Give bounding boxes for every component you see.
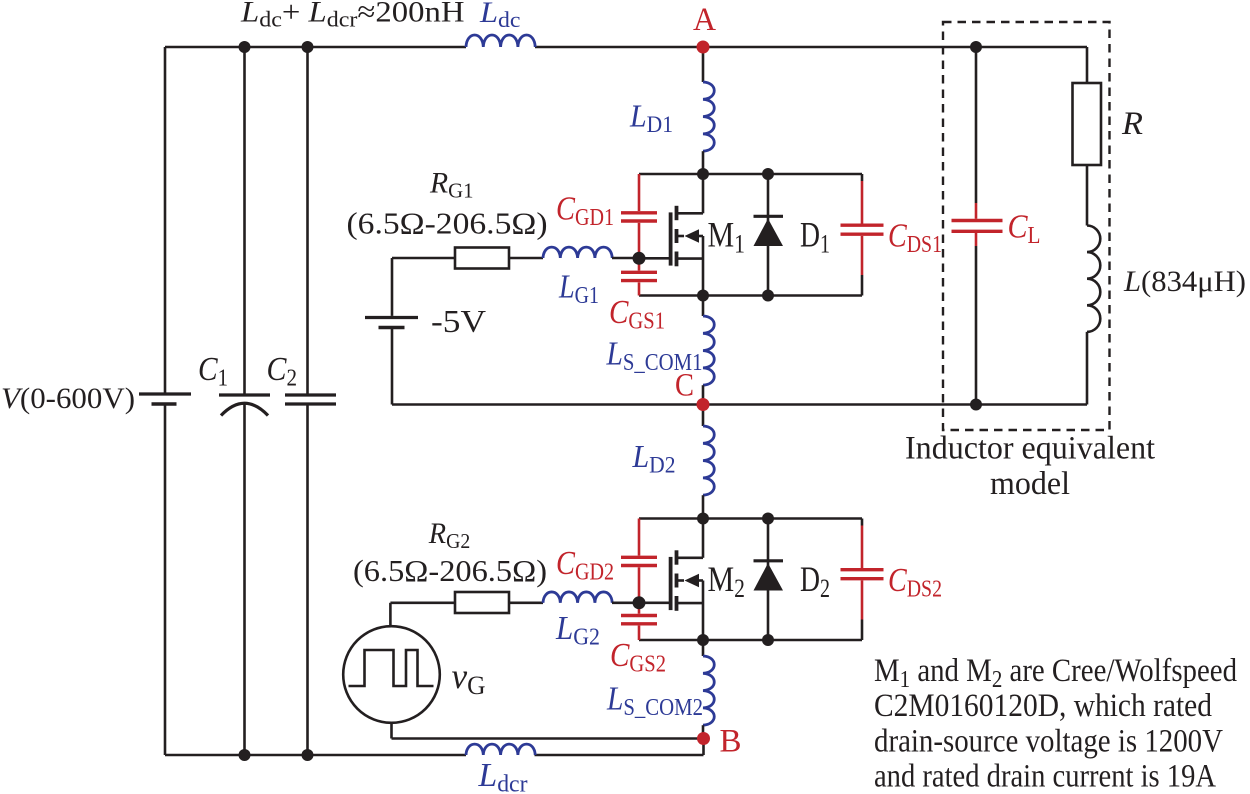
svg-text:C: C: [675, 368, 694, 404]
svg-text:M1 and M2 are Cree/Wolfspeed: M1 and M2 are Cree/Wolfspeed: [874, 653, 1237, 693]
wire C1 branch upper: [243, 47, 246, 395]
node C: [697, 398, 710, 411]
svg-text:M2: M2: [708, 559, 746, 603]
wire R_G1 to L_G1: [509, 257, 543, 260]
svg-text:C2M0160120D, which rated: C2M0160120D, which rated: [874, 688, 1212, 724]
svg-text:CGD1: CGD1: [556, 191, 614, 232]
svg-text:CDS1: CDS1: [888, 218, 942, 259]
capacitor C1 (polarized): [219, 395, 270, 416]
svg-text:CGD2: CGD2: [556, 545, 614, 586]
wire -5V loop to R_G1: [392, 257, 455, 260]
wire node A to L_D1: [702, 47, 705, 82]
wire riser from bottom rail to node B: [702, 739, 705, 756]
inductor L_G1: [543, 247, 612, 258]
battery -5V: [365, 318, 418, 328]
svg-text:RG2: RG2: [428, 517, 470, 553]
inductor L: [1087, 226, 1100, 332]
svg-text:LG1: LG1: [558, 269, 599, 310]
svg-text:C1: C1: [198, 351, 228, 392]
svg-text:model: model: [990, 466, 1070, 502]
wire top rail corner to R: [1086, 47, 1089, 83]
source v_G pulse waveform: [349, 650, 434, 686]
diode D1: [754, 174, 784, 296]
svg-text:LD2: LD2: [632, 438, 676, 478]
svg-text:(6.5Ω-206.5Ω): (6.5Ω-206.5Ω): [353, 553, 547, 588]
svg-text:vG: vG: [452, 656, 486, 700]
capacitor C_DS1 branch: [841, 174, 884, 296]
wire v_G branch down: [389, 603, 392, 626]
wire C1 branch lower: [243, 404, 246, 755]
wire M2 box bottom rail: [639, 639, 862, 642]
capacitor C_DS2 branch: [841, 519, 884, 641]
svg-text:drain-source voltage is 1200V: drain-source voltage is 1200V: [874, 723, 1223, 759]
wire L_G2 to gate node: [612, 601, 639, 604]
svg-text:Inductor equivalent: Inductor equivalent: [905, 431, 1155, 467]
wire C2 branch upper: [306, 47, 309, 395]
transistor M2: [639, 519, 703, 641]
wire M1 box top rail: [639, 173, 862, 176]
svg-text:CGS1: CGS1: [609, 294, 665, 335]
wire top rail right segment: [535, 46, 1087, 49]
svg-text:Ldc+ Ldcr≈200nH: Ldc+ Ldcr≈200nH: [240, 0, 465, 32]
wire R to L: [1086, 165, 1089, 226]
capacitor C_L branch: [952, 47, 1003, 405]
svg-text:CDS2: CDS2: [888, 562, 942, 603]
wire left branch below battery V: [164, 404, 167, 755]
svg-text:(6.5Ω-206.5Ω): (6.5Ω-206.5Ω): [347, 206, 548, 241]
source v_G circle: [343, 626, 440, 723]
wire L_D1 to M1 drain rail: [702, 151, 705, 174]
wire left branch above battery V: [164, 47, 167, 394]
inductor L_dcr: [466, 744, 535, 755]
battery V(0-600V): [139, 394, 191, 404]
diode D2: [754, 519, 784, 641]
wire top rail left segment: [165, 46, 466, 49]
node B: [697, 732, 710, 745]
resistor R_G1: [455, 248, 509, 269]
svg-text:C2: C2: [267, 351, 298, 392]
transistor M1: [639, 174, 703, 296]
svg-text:R: R: [1121, 106, 1143, 142]
inductor L_S_COM2: [703, 640, 714, 739]
wire v_G bottom to node B: [392, 723, 704, 739]
junction dots black: [239, 41, 983, 761]
svg-text:A: A: [693, 2, 716, 38]
capacitor C2: [285, 395, 336, 404]
inductor L_S_COM1: [703, 296, 714, 405]
wire -5V branch down: [391, 258, 394, 316]
svg-text:D1: D1: [800, 215, 830, 259]
svg-text:B: B: [720, 724, 742, 760]
dashed box inductor equivalent model: [943, 22, 1110, 430]
wire R_G2 to L_G2: [509, 601, 543, 604]
svg-text:LG2: LG2: [555, 610, 600, 651]
node A: [697, 41, 710, 54]
inductor L_dc: [466, 35, 535, 47]
wire C2 branch lower: [306, 404, 309, 755]
svg-text:M1: M1: [708, 215, 746, 259]
wire M1 box bottom rail: [639, 294, 862, 297]
wire v_G loop to R_G2: [390, 601, 455, 604]
capacitor C_GD1 branch wires: [638, 174, 641, 271]
svg-text:Ldcr: Ldcr: [478, 757, 528, 794]
svg-text:RG1: RG1: [429, 167, 473, 203]
svg-text:LS_COM2: LS_COM2: [606, 681, 703, 722]
svg-text:Ldc: Ldc: [479, 0, 521, 32]
inductor L_G2: [543, 592, 612, 603]
wire rail through node C: [392, 403, 1087, 406]
wire -5V to C rail: [391, 328, 394, 405]
capacitor C_GD1 plates: [621, 213, 657, 221]
wire M2 box top rail: [639, 517, 862, 520]
capacitor C_GS2 plates: [621, 616, 657, 624]
wire bottom rail left of L_dcr: [165, 754, 466, 757]
inductor L_D2: [703, 405, 714, 519]
wire L_G1 to gate node: [612, 257, 639, 260]
capacitor C_GS2 lower wire: [638, 626, 641, 640]
svg-text:LD1: LD1: [629, 98, 673, 138]
resistor R: [1073, 83, 1102, 165]
svg-text:L(834μH): L(834μH): [1123, 265, 1246, 298]
capacitor C_GS1 plates: [621, 272, 657, 280]
inductor L_D1: [703, 82, 714, 151]
capacitor C_GD2 branch wires: [638, 519, 641, 614]
capacitor C_GD2 plates: [621, 557, 657, 565]
svg-text:CGS2: CGS2: [610, 637, 666, 678]
svg-text:-5V: -5V: [431, 303, 486, 339]
wire L to bottom rail: [1086, 332, 1089, 405]
svg-text:CL: CL: [1008, 209, 1041, 250]
resistor R_G2: [455, 592, 509, 613]
wire bottom rail right of L_dcr: [535, 754, 704, 757]
svg-text:and rated drain current is 19A: and rated drain current is 19A: [874, 759, 1216, 794]
svg-text:D2: D2: [800, 559, 830, 603]
svg-text:V(0-600V): V(0-600V): [1, 382, 135, 415]
capacitor C_GS1 lower wire: [638, 282, 641, 295]
